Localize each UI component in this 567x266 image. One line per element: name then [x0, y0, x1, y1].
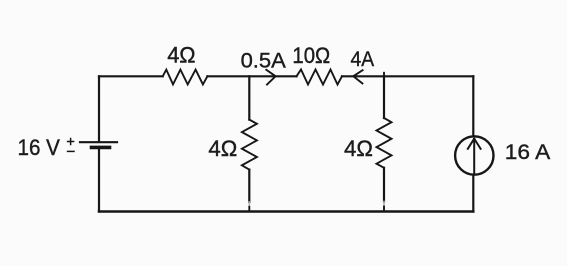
- wire branch node B upper: [383, 76, 385, 118]
- current arrow 0.5A (pointing right): [266, 70, 275, 85]
- current source I1 arrow (up): [468, 139, 481, 174]
- wire left upper (to battery): [98, 76, 100, 141]
- wire branch node A lower: [248, 170, 250, 202]
- battery minus terminal mark: [68, 150, 74, 152]
- wire right lower: [472, 175, 474, 212]
- svg-text:4Ω: 4Ω: [167, 42, 195, 67]
- svg-text:4Ω: 4Ω: [208, 136, 237, 161]
- wire top-left segment: [99, 75, 163, 77]
- wire bottom: [99, 210, 473, 213]
- wire junction gap artifact node B bottom: [383, 202, 385, 211]
- battery plus terminal mark: [68, 139, 74, 145]
- wire top right segment: [342, 75, 473, 77]
- wire right upper: [472, 76, 474, 136]
- svg-text:4A: 4A: [351, 48, 375, 71]
- resistor R3 10Ω (top middle, horizontal): [297, 70, 343, 85]
- wire branch node A upper: [248, 76, 250, 119]
- resistor R2 4Ω (left branch, vertical): [242, 120, 257, 170]
- svg-text:16 A: 16 A: [505, 140, 551, 164]
- wire branch node B lower: [383, 168, 385, 202]
- wire top middle segment (node A to R3): [207, 75, 296, 77]
- resistor R4 4Ω (right branch, vertical): [377, 118, 392, 168]
- wire left lower (battery to bottom): [98, 148, 100, 211]
- svg-text:0.5A: 0.5A: [241, 49, 287, 73]
- node B overshoot tick: [383, 73, 385, 77]
- current arrow 4A (pointing left): [353, 70, 362, 83]
- resistor R1 4Ω (top left, horizontal): [163, 70, 208, 85]
- svg-text:16 V: 16 V: [18, 135, 61, 160]
- current source I1 circle: [455, 136, 493, 174]
- wire junction gap artifact node A bottom: [248, 202, 250, 210]
- svg-text:10Ω: 10Ω: [292, 43, 330, 68]
- svg-text:4Ω: 4Ω: [344, 136, 373, 161]
- voltage source V1 battery short plate: [92, 146, 110, 150]
- voltage source V1 16 V battery long plate: [80, 141, 117, 143]
